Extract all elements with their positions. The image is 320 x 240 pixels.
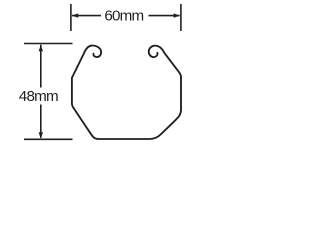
extension tick: 48mm top (24, 43, 73, 45)
svg-text:48mm: 48mm (19, 88, 58, 105)
arrowhead 48mm down (39, 132, 43, 139)
dimension line 60mm right segment (149, 15, 180, 17)
dimension graphics (24, 4, 181, 139)
arrowhead 60mm right (174, 13, 181, 17)
arrowhead 48mm up (39, 45, 43, 52)
arrowhead 60mm left (72, 13, 79, 17)
wire: left side, bottom, right side of octagonal tube (72, 78, 181, 139)
dimension line 60mm left segment (72, 15, 101, 17)
extension tick: 60mm left (70, 4, 72, 31)
svg-text:60mm: 60mm (104, 8, 143, 25)
extension tick: 60mm right (180, 4, 182, 31)
dimension line 48mm top segment (40, 45, 42, 88)
dimension line 48mm bottom segment (40, 105, 42, 138)
extension tick: 48mm bottom (24, 138, 73, 140)
wire: top-right slant and right hook curl (149, 46, 181, 78)
tube profile outline (72, 46, 181, 139)
wire: top-left slant and left hook curl (72, 46, 101, 78)
